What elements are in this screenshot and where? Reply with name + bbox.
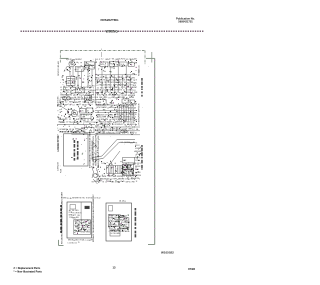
svg-text:T8: T8 bbox=[134, 105, 136, 107]
svg-text:T8: T8 bbox=[67, 198, 69, 200]
svg-text:RTCDNHMOWBLDSRTATUEAHCH FFDLIU: RTCDNHMOWBLDSRTATUEAHCH FFDLIUAADGIA WRT bbox=[61, 191, 64, 244]
svg-text:ROFAOP TBOBNMOHMPWMOUBMTENHPA: ROFAOP TBOBNMOHMPWMOUBMTENHPANDTFC bbox=[92, 194, 95, 242]
svg-text:3.2: 3.2 bbox=[121, 227, 123, 229]
svg-text:3.2: 3.2 bbox=[69, 119, 71, 121]
svg-text:J2: J2 bbox=[109, 59, 111, 61]
svg-text:3.2: 3.2 bbox=[114, 229, 116, 231]
svg-text:L1: L1 bbox=[107, 107, 109, 109]
svg-text:* = Non-Illustrated Parts: * = Non-Illustrated Parts bbox=[14, 271, 43, 274]
svg-text:3.2: 3.2 bbox=[97, 87, 99, 89]
svg-text:P4: P4 bbox=[131, 119, 133, 121]
svg-text:T8: T8 bbox=[115, 119, 117, 121]
svg-text:12: 12 bbox=[136, 181, 138, 183]
svg-text:07/96: 07/96 bbox=[188, 267, 195, 271]
svg-text:15: 15 bbox=[66, 122, 68, 124]
svg-text:6: 6 bbox=[123, 107, 124, 109]
svg-text:12: 12 bbox=[123, 176, 125, 178]
svg-text:N: N bbox=[80, 213, 81, 215]
svg-text:W105022: W105022 bbox=[161, 251, 174, 255]
svg-text:P4: P4 bbox=[109, 97, 111, 99]
svg-text:J2: J2 bbox=[99, 59, 101, 61]
svg-text:J2: J2 bbox=[99, 198, 101, 200]
svg-text:PNK: PNK bbox=[132, 181, 135, 183]
svg-text:L1: L1 bbox=[67, 87, 69, 89]
svg-text:J2: J2 bbox=[121, 142, 123, 144]
svg-text:3.2: 3.2 bbox=[60, 92, 62, 94]
svg-text:L1: L1 bbox=[108, 129, 110, 131]
svg-text:5995421751: 5995421751 bbox=[178, 19, 193, 23]
svg-text:WPHOOO HRLAMI: WPHOOO HRLAMI bbox=[57, 61, 60, 76]
svg-text:P4: P4 bbox=[97, 176, 99, 178]
svg-text:12: 12 bbox=[128, 169, 130, 171]
svg-text:12: 12 bbox=[117, 105, 119, 107]
svg-text:WHT: WHT bbox=[115, 87, 119, 89]
svg-text:3.2: 3.2 bbox=[103, 121, 105, 123]
svg-text:YEL: YEL bbox=[82, 198, 85, 200]
svg-text:12: 12 bbox=[140, 163, 142, 165]
svg-text:DEF: DEF bbox=[124, 228, 127, 230]
svg-text:L FS BMNWRSFEDNFPSORI: L FS BMNWRSFEDNFPSORI bbox=[139, 103, 141, 126]
svg-text:3.2: 3.2 bbox=[121, 124, 123, 126]
svg-text:T8: T8 bbox=[132, 117, 134, 119]
svg-text:P4: P4 bbox=[86, 92, 88, 94]
svg-text:# = Replacement Parts: # = Replacement Parts bbox=[14, 267, 41, 270]
svg-text:EAABEBCBCWNGUCODHGGDBBCLSDE: EAABEBCBCWNGUCODHGGDBBCLSDE bbox=[97, 135, 100, 168]
svg-text:IPFWBLEWEIUSNU: IPFWBLEWEIUSNU bbox=[58, 134, 60, 150]
svg-text:T8: T8 bbox=[128, 117, 130, 119]
svg-text:P4: P4 bbox=[73, 213, 75, 215]
svg-text:WHT: WHT bbox=[78, 59, 81, 61]
svg-text:YEL: YEL bbox=[77, 215, 80, 217]
svg-text:PWR: PWR bbox=[61, 168, 63, 173]
svg-text:P4: P4 bbox=[135, 142, 137, 144]
svg-text:P4: P4 bbox=[133, 90, 135, 92]
svg-text:GY: GY bbox=[111, 229, 113, 231]
svg-text:N: N bbox=[112, 222, 113, 224]
svg-text:CUUSOGH: CUUSOGH bbox=[58, 162, 60, 171]
svg-text:L1: L1 bbox=[135, 154, 137, 156]
svg-text:DEF: DEF bbox=[114, 231, 117, 233]
svg-text:J2: J2 bbox=[85, 227, 87, 229]
svg-text:3.2: 3.2 bbox=[65, 102, 67, 104]
svg-text:15: 15 bbox=[89, 220, 91, 222]
svg-text:P4: P4 bbox=[119, 92, 121, 94]
svg-text:YEL: YEL bbox=[112, 59, 115, 61]
svg-text:WIRING: WIRING bbox=[106, 30, 119, 34]
svg-text:DEF: DEF bbox=[62, 99, 65, 101]
svg-text:T8: T8 bbox=[120, 90, 122, 92]
svg-text:OL: OL bbox=[120, 64, 122, 66]
svg-text:J2: J2 bbox=[127, 133, 129, 135]
svg-text:3.2: 3.2 bbox=[132, 129, 134, 131]
svg-text:6: 6 bbox=[93, 94, 94, 96]
svg-text:3.2: 3.2 bbox=[79, 95, 81, 97]
svg-text:15: 15 bbox=[78, 242, 80, 244]
svg-text:YEL: YEL bbox=[99, 85, 102, 87]
svg-text:3.2: 3.2 bbox=[138, 145, 140, 147]
svg-text:P4: P4 bbox=[92, 92, 94, 94]
svg-text:DEF: DEF bbox=[62, 122, 65, 124]
svg-text:YEL: YEL bbox=[124, 95, 127, 97]
svg-text:N: N bbox=[127, 217, 128, 219]
svg-text:J2: J2 bbox=[74, 215, 76, 217]
svg-text:6: 6 bbox=[124, 77, 125, 79]
svg-text:3.2: 3.2 bbox=[99, 181, 101, 183]
svg-text:BLU: BLU bbox=[76, 217, 79, 219]
svg-text:3.2: 3.2 bbox=[126, 219, 128, 221]
svg-text:3.2: 3.2 bbox=[65, 119, 67, 121]
svg-text:15: 15 bbox=[87, 119, 89, 121]
svg-text:WHT: WHT bbox=[138, 148, 141, 150]
svg-text:DEF: DEF bbox=[78, 102, 81, 104]
svg-text:T8: T8 bbox=[80, 87, 82, 89]
svg-text:YEL: YEL bbox=[92, 99, 95, 101]
svg-text:15: 15 bbox=[129, 181, 131, 183]
svg-text:12: 12 bbox=[75, 242, 77, 244]
svg-text:L1: L1 bbox=[110, 85, 112, 87]
svg-text:DEF: DEF bbox=[102, 132, 105, 134]
svg-text:3.2: 3.2 bbox=[72, 104, 74, 106]
svg-text:L1: L1 bbox=[100, 129, 102, 131]
svg-text:GRN: GRN bbox=[116, 233, 119, 235]
svg-text:3.2: 3.2 bbox=[99, 94, 101, 96]
svg-text:FRS26ZTBG: FRS26ZTBG bbox=[101, 18, 120, 22]
svg-text:L1: L1 bbox=[60, 87, 62, 89]
svg-text:GRN: GRN bbox=[138, 151, 141, 153]
svg-text:P4: P4 bbox=[105, 97, 107, 99]
svg-text:DEF: DEF bbox=[85, 63, 88, 65]
svg-text:DEF: DEF bbox=[119, 122, 122, 124]
svg-text:5: 5 bbox=[101, 49, 102, 51]
svg-text:DEF: DEF bbox=[118, 80, 121, 82]
svg-text:J2: J2 bbox=[135, 133, 137, 135]
svg-text:LIGHT: LIGHT bbox=[76, 68, 81, 70]
svg-text:6: 6 bbox=[116, 224, 117, 226]
svg-text:WHT: WHT bbox=[133, 87, 137, 89]
svg-text:3.2: 3.2 bbox=[101, 59, 103, 61]
svg-text:P4: P4 bbox=[132, 176, 134, 178]
svg-text:P4: P4 bbox=[99, 104, 101, 106]
svg-text:BRN: BRN bbox=[113, 176, 116, 178]
svg-text:6: 6 bbox=[71, 95, 72, 97]
